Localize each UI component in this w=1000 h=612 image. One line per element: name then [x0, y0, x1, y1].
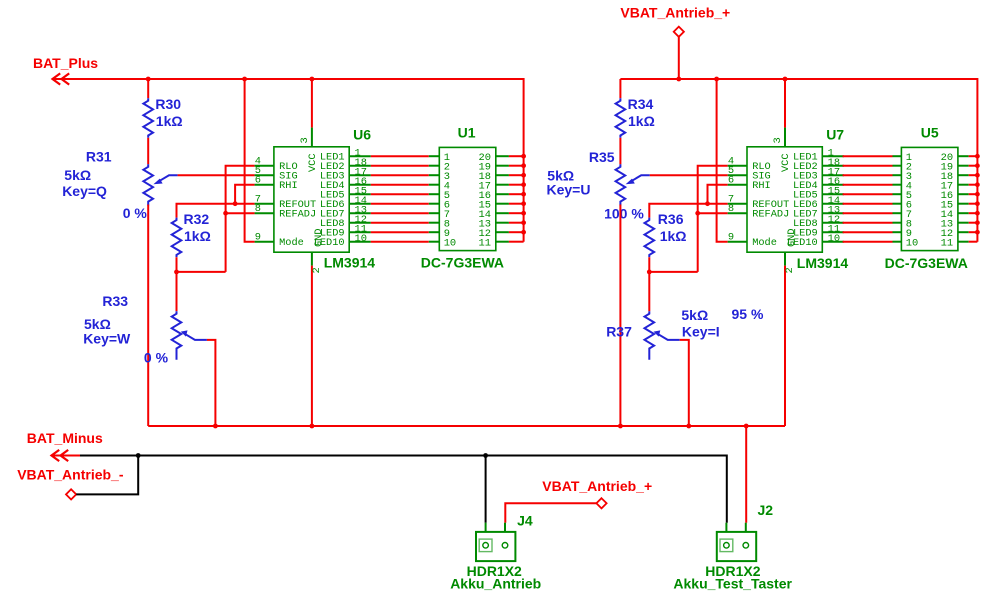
pin stub J2 pin1 — [725, 523, 727, 543]
wire U1 return — [509, 231, 524, 233]
wire U1 return — [509, 222, 524, 224]
wire R31 wiper to SIG — [178, 174, 255, 176]
wire U1 return — [509, 212, 524, 214]
svg-text:10: 10 — [828, 233, 840, 245]
off-page connector BAT_Plus — [53, 73, 70, 84]
wire RLO pin4 right — [698, 166, 728, 272]
svg-text:0 %: 0 % — [144, 349, 169, 365]
wire LED5 to U5 — [843, 193, 893, 195]
junction — [975, 211, 980, 216]
svg-text:Key=I: Key=I — [682, 324, 720, 340]
pin stub U5 right — [958, 222, 969, 224]
pin stub U7 LED9 — [822, 231, 844, 233]
wire REFOUT pin7 to R32 top — [177, 204, 255, 218]
pin stub U6 pin 7 — [255, 203, 274, 205]
potentiometer R33 — [172, 311, 182, 359]
pin stub U5 right — [958, 203, 969, 205]
wire U5 return — [969, 231, 978, 233]
pin stub U6 LED2 — [349, 165, 371, 167]
pin stub GND right — [784, 252, 786, 265]
wire U5 return — [969, 174, 978, 176]
wire LED4 to U1 — [371, 184, 429, 186]
wire to R33 — [176, 272, 178, 311]
svg-text:R31: R31 — [86, 149, 112, 165]
pin stub U6 LED8 — [349, 222, 371, 224]
wire U5 return — [969, 193, 978, 195]
svg-text:BAT_Plus: BAT_Plus — [33, 55, 98, 71]
wire U1 return — [509, 174, 524, 176]
junction — [310, 424, 315, 429]
pin stub U1 — [429, 184, 440, 186]
junction — [483, 453, 488, 458]
svg-text:0 %: 0 % — [123, 205, 148, 221]
connector J4 HDR1X2 body — [476, 532, 515, 561]
svg-text:6: 6 — [728, 175, 734, 187]
wire R37 wiper down — [680, 340, 689, 426]
wire Mode pin9 — [245, 79, 255, 242]
junction — [213, 424, 218, 429]
pin stub U7 pin 5 — [728, 174, 747, 176]
junction — [233, 201, 238, 206]
wire — [147, 79, 149, 98]
wire to J2 pin2 — [745, 426, 747, 523]
wire R33 wiper down — [207, 340, 216, 426]
pin stub U5 — [893, 222, 902, 224]
wire U1 return — [509, 193, 524, 195]
wire to R37 — [648, 272, 650, 311]
wire VCC pin3 right — [784, 79, 786, 128]
pin stub U6 LED1 — [349, 155, 371, 157]
svg-text:J2: J2 — [758, 502, 774, 518]
connector J2 pin1 marker — [720, 539, 733, 552]
wire GND pin2 down — [311, 266, 313, 426]
svg-text:11: 11 — [479, 237, 491, 249]
junction — [783, 77, 788, 82]
svg-text:VCC: VCC — [307, 153, 319, 172]
svg-text:BAT_Minus: BAT_Minus — [27, 430, 103, 446]
junction — [521, 182, 526, 187]
op-amp U7 LM3914 body — [747, 147, 822, 252]
connector J4 pin1 marker — [479, 539, 492, 552]
junction — [975, 173, 980, 178]
pin stub U6 LED6 — [349, 203, 371, 205]
pin stub U5 right — [958, 184, 969, 186]
potentiometer R37 — [645, 311, 655, 359]
potentiometer R37 wiper — [654, 330, 680, 340]
svg-text:95 %: 95 % — [732, 306, 764, 322]
pin stub U1 — [429, 231, 440, 233]
potentiometer R35 — [616, 164, 626, 205]
svg-text:GND: GND — [786, 228, 798, 247]
wire U5 return — [969, 184, 978, 186]
pin stub VCC right — [784, 128, 786, 147]
pin stub U5 — [893, 241, 902, 243]
junction — [676, 77, 681, 82]
pin stub U6 pin 4 — [255, 165, 274, 167]
wire R35 wiper to SIG — [650, 174, 728, 176]
junction — [521, 230, 526, 235]
pin stub U1 — [429, 203, 440, 205]
wire U1 return — [509, 155, 524, 157]
pin stub U5 — [893, 155, 902, 157]
pin stub U7 LED10 — [822, 241, 844, 243]
junction — [521, 201, 526, 206]
wire — [176, 257, 178, 272]
wire LED6 to U5 — [843, 203, 893, 205]
wire VBAT top bus — [620, 79, 977, 242]
wire R36 bottom row — [649, 271, 697, 273]
wire LED6 to U1 — [371, 203, 429, 205]
svg-text:10: 10 — [906, 237, 918, 249]
svg-text:RHI: RHI — [752, 180, 771, 192]
svg-text:R33: R33 — [102, 293, 128, 309]
junction — [521, 154, 526, 159]
wire LED10 to U5 — [843, 241, 893, 243]
wire RHI pin6 right — [708, 185, 728, 204]
svg-text:10: 10 — [444, 237, 456, 249]
pin stub U6 pin 8 — [255, 212, 274, 214]
pin stub U5 — [893, 165, 902, 167]
wire U5 return — [969, 222, 978, 224]
pin stub U5 — [893, 203, 902, 205]
pin stub U7 LED1 — [822, 155, 844, 157]
svg-text:Key=Q: Key=Q — [62, 183, 107, 199]
wire to J4 pin1 — [485, 456, 487, 523]
wire BAT_Plus top bus — [53, 79, 524, 242]
pin stub U5 right — [958, 212, 969, 214]
pin stub U1 right — [496, 184, 509, 186]
pin stub U5 — [893, 184, 902, 186]
svg-text:8: 8 — [728, 203, 734, 215]
pin stub J2 pin2 — [745, 523, 747, 543]
svg-text:U5: U5 — [921, 125, 939, 141]
connector J4 pin2 pad — [502, 543, 508, 549]
pin stub U7 pin 4 — [728, 165, 747, 167]
svg-text:6: 6 — [255, 175, 261, 187]
resistor R36 — [645, 218, 655, 258]
wire U5 return — [969, 212, 978, 214]
power connector VBAT_Antrieb_+ diamond bottom — [596, 498, 606, 508]
pin stub U5 — [893, 193, 902, 195]
junction — [695, 211, 700, 216]
wire GND pin2 down right — [784, 266, 786, 426]
svg-text:Mode: Mode — [752, 237, 777, 249]
svg-text:R32: R32 — [184, 211, 210, 227]
wire VBAT_Antrieb_- link — [76, 456, 138, 495]
svg-text:REFADJ: REFADJ — [752, 209, 789, 221]
pin stub U6 pin 6 — [255, 184, 274, 186]
svg-text:VBAT_Antrieb_+: VBAT_Antrieb_+ — [542, 478, 652, 494]
svg-text:10: 10 — [355, 233, 367, 245]
svg-text:Akku_Antrieb: Akku_Antrieb — [450, 576, 541, 592]
pin stub U1 right — [496, 212, 509, 214]
pin stub U7 LED3 — [822, 174, 844, 176]
svg-text:2: 2 — [784, 267, 796, 273]
pin stub U7 LED8 — [822, 222, 844, 224]
svg-text:LM3914: LM3914 — [324, 254, 376, 270]
wire — [619, 79, 621, 98]
svg-text:3: 3 — [299, 137, 311, 143]
pin stub U1 — [429, 165, 440, 167]
pin stub U1 right — [496, 222, 509, 224]
junction — [521, 173, 526, 178]
wire REFOUT pin7 to R36 top — [649, 204, 727, 218]
pin stub U7 pin 6 — [728, 184, 747, 186]
wire — [147, 205, 149, 427]
svg-text:DC-7G3EWA: DC-7G3EWA — [421, 254, 504, 270]
svg-text:Mode: Mode — [279, 237, 304, 249]
connector J2 pin2 pad — [743, 543, 749, 549]
pin stub U5 — [893, 174, 902, 176]
wire LED8 to U1 — [371, 222, 429, 224]
wire VBAT supply drop — [678, 37, 680, 79]
junction — [744, 424, 749, 429]
pin stub U1 — [429, 222, 440, 224]
pin stub U6 LED4 — [349, 184, 371, 186]
svg-text:100 %: 100 % — [604, 205, 644, 221]
wire — [619, 138, 621, 165]
junction — [242, 77, 247, 82]
wire REFADJ pin8 right — [698, 212, 728, 214]
svg-text:1kΩ: 1kΩ — [156, 113, 183, 129]
op-amp U6 LM3914 body — [274, 147, 349, 252]
pin stub U7 pin 7 — [728, 203, 747, 205]
pin stub U7 pin 8 — [728, 212, 747, 214]
potentiometer R35 wiper — [626, 175, 650, 184]
svg-text:R30: R30 — [155, 96, 181, 112]
svg-text:LM3914: LM3914 — [797, 255, 849, 271]
junction — [146, 77, 151, 82]
connector J2 pin1 pad — [724, 543, 730, 549]
pin stub U5 — [893, 212, 902, 214]
potentiometer R31 wiper — [153, 175, 177, 184]
pin stub U6 pin 9 — [255, 241, 274, 243]
wire RLO pin4 — [226, 166, 255, 272]
svg-text:REFADJ: REFADJ — [279, 209, 316, 221]
wire REFADJ pin8 — [226, 212, 255, 214]
svg-text:VBAT_Antrieb_+: VBAT_Antrieb_+ — [620, 5, 730, 21]
pin stub VCC — [311, 128, 313, 147]
svg-text:GND: GND — [313, 228, 325, 247]
power connector VBAT_Antrieb_+ diamond — [674, 27, 684, 37]
junction — [705, 201, 710, 206]
wire U1 return — [509, 203, 524, 205]
pin stub U5 right — [958, 193, 969, 195]
wire R32 bottom row — [177, 271, 226, 273]
pin stub U1 — [429, 155, 440, 157]
svg-text:R36: R36 — [658, 211, 684, 227]
svg-text:VBAT_Antrieb_-: VBAT_Antrieb_- — [17, 466, 124, 482]
wire bottom bus — [148, 425, 785, 427]
pin stub U7 LED7 — [822, 212, 844, 214]
wire LED3 to U1 — [371, 174, 429, 176]
pin stub U7 LED5 — [822, 193, 844, 195]
pin stub U1 — [429, 212, 440, 214]
wire U5 return — [969, 241, 978, 243]
svg-text:1kΩ: 1kΩ — [660, 228, 687, 244]
wire LED7 to U1 — [371, 212, 429, 214]
svg-text:5kΩ: 5kΩ — [64, 167, 91, 183]
pin stub U1 right — [496, 231, 509, 233]
pin stub U1 — [429, 193, 440, 195]
pin stub U1 right — [496, 174, 509, 176]
junction — [975, 154, 980, 159]
junction — [975, 192, 980, 197]
pin stub U1 — [429, 241, 440, 243]
pin stub U1 right — [496, 165, 509, 167]
wire — [147, 138, 149, 165]
pin stub U6 pin 5 — [255, 174, 274, 176]
junction — [136, 453, 141, 458]
svg-text:2: 2 — [311, 267, 323, 273]
junction — [714, 77, 719, 82]
svg-text:U6: U6 — [353, 126, 371, 142]
LED bar U1 DC-7G3EWA body — [439, 147, 496, 250]
potentiometer R31 — [143, 164, 153, 205]
svg-text:8: 8 — [255, 203, 261, 215]
svg-text:Akku_Test_Taster: Akku_Test_Taster — [673, 576, 792, 592]
wire LED3 to U5 — [843, 174, 893, 176]
wire LED5 to U1 — [371, 193, 429, 195]
junction — [975, 201, 980, 206]
wire U1 return — [509, 241, 524, 243]
junction — [310, 77, 315, 82]
junction — [975, 230, 980, 235]
junction — [174, 270, 179, 275]
pin stub U5 right — [958, 165, 969, 167]
wire VBAT_Antrieb_+ to J4 pin2 — [505, 503, 596, 522]
pin stub U6 LED9 — [349, 231, 371, 233]
pin stub U7 LED4 — [822, 184, 844, 186]
junction — [521, 211, 526, 216]
wire LED1 to U5 — [843, 155, 893, 157]
wire U1 return — [509, 165, 524, 167]
svg-text:R37: R37 — [606, 324, 632, 340]
svg-text:1kΩ: 1kΩ — [628, 113, 655, 129]
wire LED2 to U1 — [371, 165, 429, 167]
wire LED1 to U1 — [371, 155, 429, 157]
wire LED2 to U5 — [843, 165, 893, 167]
svg-text:3: 3 — [772, 137, 784, 143]
wire BAT_Minus red stub — [52, 455, 81, 457]
svg-text:1kΩ: 1kΩ — [184, 228, 211, 244]
connector J2 HDR1X2 body — [717, 532, 756, 561]
wire — [648, 257, 650, 272]
wire VCC pin3 — [311, 79, 313, 128]
pin stub U1 — [429, 174, 440, 176]
wire U5 return — [969, 165, 978, 167]
svg-text:VCC: VCC — [780, 153, 792, 172]
svg-text:R34: R34 — [628, 96, 654, 112]
wire — [619, 205, 621, 427]
pin stub U1 right — [496, 193, 509, 195]
connector J4 pin1 pad — [483, 543, 489, 549]
pin stub U6 LED10 — [349, 241, 371, 243]
pin stub U7 pin 9 — [728, 241, 747, 243]
pin stub U5 right — [958, 174, 969, 176]
junction — [223, 211, 228, 216]
pin stub J4 pin1 — [485, 523, 487, 543]
pin stub U6 LED7 — [349, 212, 371, 214]
pin stub U7 LED2 — [822, 165, 844, 167]
svg-text:U1: U1 — [458, 125, 476, 141]
junction — [686, 424, 691, 429]
svg-text:11: 11 — [941, 237, 953, 249]
pin stub GND — [311, 252, 313, 265]
pin stub U1 right — [496, 155, 509, 157]
wire LED7 to U5 — [843, 212, 893, 214]
pin stub J4 pin2 — [504, 523, 506, 543]
resistor R30 — [143, 98, 153, 138]
wire BAT_Minus bus — [80, 456, 727, 523]
power connector VBAT_Antrieb_- diamond — [66, 489, 76, 499]
svg-text:RHI: RHI — [279, 180, 298, 192]
svg-text:R35: R35 — [589, 149, 615, 165]
pin stub U6 LED5 — [349, 193, 371, 195]
wire Mode pin9 right — [717, 79, 728, 242]
svg-text:5kΩ: 5kΩ — [681, 307, 708, 323]
junction — [975, 220, 980, 225]
wire U1 return — [509, 184, 524, 186]
svg-text:Key=U: Key=U — [547, 182, 591, 198]
resistor R34 — [616, 98, 626, 138]
junction — [975, 163, 980, 168]
wire LED4 to U5 — [843, 184, 893, 186]
pin stub U5 right — [958, 155, 969, 157]
potentiometer R33 wiper — [181, 330, 207, 340]
pin stub U1 right — [496, 203, 509, 205]
wire RHI pin6 — [235, 185, 255, 204]
svg-text:9: 9 — [255, 232, 261, 244]
wire U5 return — [969, 203, 978, 205]
svg-text:DC-7G3EWA: DC-7G3EWA — [885, 255, 968, 271]
junction — [521, 192, 526, 197]
junction — [647, 270, 652, 275]
LED bar U5 DC-7G3EWA body — [901, 147, 958, 250]
pin stub U5 — [893, 231, 902, 233]
pin stub U6 LED3 — [349, 174, 371, 176]
junction — [975, 182, 980, 187]
resistor R32 — [172, 218, 182, 258]
svg-text:J4: J4 — [517, 512, 533, 528]
wire U5 return — [969, 155, 978, 157]
off-page connector BAT_Minus — [52, 450, 69, 461]
junction — [521, 163, 526, 168]
junction — [618, 424, 623, 429]
wire LED8 to U5 — [843, 222, 893, 224]
pin stub U5 right — [958, 241, 969, 243]
wire LED9 to U5 — [843, 231, 893, 233]
svg-text:Key=W: Key=W — [83, 331, 131, 347]
pin stub U7 LED6 — [822, 203, 844, 205]
wire LED9 to U1 — [371, 231, 429, 233]
svg-text:U7: U7 — [826, 126, 844, 142]
wire LED10 to U1 — [371, 241, 429, 243]
pin stub U1 right — [496, 241, 509, 243]
svg-text:9: 9 — [728, 232, 734, 244]
junction — [521, 220, 526, 225]
pin stub U5 right — [958, 231, 969, 233]
